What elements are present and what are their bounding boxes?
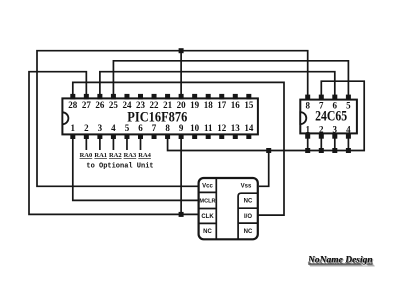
svg-text:RA4: RA4 bbox=[138, 152, 151, 159]
svg-text:NC: NC bbox=[244, 229, 253, 235]
IC U1 PIC16F876 body bbox=[62, 98, 258, 134]
svg-text:PIC16F876: PIC16F876 bbox=[127, 110, 187, 126]
wire SDA: PIC pin 25 to 24C65 pin 5 bbox=[113, 61, 348, 100]
svg-text:Vcc: Vcc bbox=[202, 184, 213, 190]
junction GND / 24C65 pin 2 bbox=[319, 148, 324, 153]
junction GND / 24C65 pin 4 bbox=[346, 148, 351, 153]
wire 24C65 pin 2 to GND rail bbox=[320, 135, 322, 151]
U1 bottom pin stubs 1-14 bbox=[70, 134, 251, 139]
CN1 left column divider bbox=[215, 178, 217, 239]
junction Vdd / PIC pin 20 bbox=[179, 48, 184, 94]
connector CN1 outline bbox=[199, 178, 258, 239]
wire RA0: PIC pin 2 stub down bbox=[85, 139, 87, 150]
svg-text:RA3: RA3 bbox=[124, 152, 137, 159]
svg-text:RA1: RA1 bbox=[94, 152, 107, 159]
svg-text:NoName Design: NoName Design bbox=[307, 256, 373, 266]
svg-text:I/O: I/O bbox=[244, 214, 252, 220]
wire MCLR: PIC pin 1 down to connector MCLR bbox=[73, 139, 200, 200]
wire GND rail: PIC pin 8 down, right under 24C65 to riser bbox=[168, 81, 365, 150]
junction GND / 24C65 pin 3 bbox=[332, 148, 337, 153]
wire Vdd bus: connector Vcc up-left riser, top horizontal to 24C65 pin 8 bbox=[37, 51, 308, 187]
svg-text:RA0: RA0 bbox=[80, 152, 93, 159]
wire RA1: PIC pin 3 stub down bbox=[99, 139, 101, 150]
U2 top pin stubs 8-5 bbox=[305, 95, 351, 100]
svg-text:NC: NC bbox=[203, 229, 212, 235]
svg-text:CLK: CLK bbox=[201, 214, 214, 220]
wire 24C65 pin 4 to GND rail bbox=[347, 135, 349, 151]
wire RA4: PIC pin 6 stub down bbox=[140, 139, 142, 150]
wire SCL: PIC pin 26 to 24C65 pin 6 bbox=[100, 72, 335, 100]
U1 top pin stubs 28-15 bbox=[70, 94, 251, 100]
U2 bottom pin stubs 1-4 bbox=[305, 133, 351, 138]
wire RA2: PIC pin 4 stub down bbox=[112, 139, 114, 150]
svg-text:to Optional Unit: to Optional Unit bbox=[86, 163, 153, 171]
wire RA3: PIC pin 5 stub down bbox=[126, 139, 128, 150]
CN1 left cell separators bbox=[199, 192, 217, 223]
IC U2 24C65 body bbox=[300, 100, 357, 134]
wire GND-Vss link: connector Vss right, up to rail bbox=[259, 151, 269, 187]
wire CLK: PIC pin 27 left-down to connector CLK bbox=[29, 72, 199, 215]
CN1 right column border with rounded corner bbox=[238, 193, 258, 239]
svg-text:24C65: 24C65 bbox=[315, 109, 347, 125]
wire DATA I/O: PIC pin 28 over top, down right side to connector I/O bbox=[73, 82, 284, 215]
CN1 right cell separators bbox=[238, 208, 258, 223]
wire 24C65 pin 1 to GND rail bbox=[307, 135, 309, 151]
svg-text:RA2: RA2 bbox=[109, 152, 122, 159]
junction GND / 24C65 pin 1 bbox=[305, 148, 310, 153]
junction GND rail / Vss link bbox=[266, 148, 271, 153]
svg-text:NC: NC bbox=[244, 199, 253, 205]
svg-text:Vss: Vss bbox=[241, 184, 252, 190]
wire 24C65 pin 3 to GND rail bbox=[334, 135, 336, 151]
junction CLK / PIC pin 9 bbox=[179, 139, 184, 217]
svg-text:MCLR: MCLR bbox=[199, 199, 215, 205]
